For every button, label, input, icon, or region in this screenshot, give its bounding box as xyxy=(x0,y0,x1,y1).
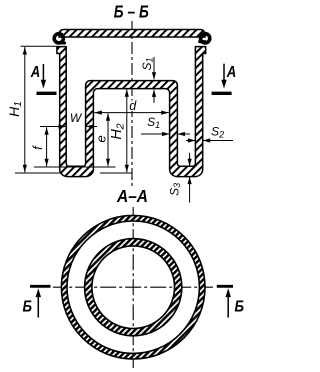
section marker A left xyxy=(30,64,57,93)
baseline upper xyxy=(34,166,116,168)
svg-text:S1: S1 xyxy=(147,115,160,130)
svg-text:Б – Б: Б – Б xyxy=(114,1,149,21)
cap top bar xyxy=(59,30,205,38)
bottom view centerline horizontal xyxy=(53,286,213,288)
section marker B right xyxy=(217,286,244,317)
svg-text:S2: S2 xyxy=(211,125,224,140)
svg-text:Б: Б xyxy=(235,299,245,316)
svg-text:d: d xyxy=(129,99,137,113)
cap right curl xyxy=(201,34,210,43)
dimension S1 right (inner wall) xyxy=(141,115,190,136)
dimension S2 (outer wall) xyxy=(186,125,233,143)
outer ring xyxy=(61,215,205,359)
dimension H1 xyxy=(6,47,27,172)
svg-text:W: W xyxy=(70,111,83,125)
dimension d xyxy=(94,99,168,115)
svg-text:А: А xyxy=(30,64,40,81)
svg-text:А–А: А–А xyxy=(116,186,148,206)
svg-text:e: e xyxy=(93,135,108,142)
dimension S1 top (deck thickness) xyxy=(140,57,156,103)
baseline lower left xyxy=(15,172,62,174)
body profile xyxy=(57,47,206,177)
centerline section view xyxy=(131,21,133,186)
dimension e xyxy=(93,113,110,166)
svg-text:H1: H1 xyxy=(6,101,24,117)
svg-text:S3: S3 xyxy=(168,183,183,196)
svg-text:Б: Б xyxy=(22,299,32,316)
svg-text:H2: H2 xyxy=(109,123,127,139)
svg-text:f: f xyxy=(31,145,45,150)
svg-text:А: А xyxy=(226,64,236,81)
dimension S3 (bottom thickness) xyxy=(168,153,192,203)
inner ring xyxy=(85,239,182,336)
dimension f xyxy=(31,127,49,166)
bottom view centerline vertical xyxy=(132,207,134,368)
extension line top left xyxy=(21,45,58,47)
section marker B left xyxy=(22,286,50,317)
dimension H2 xyxy=(109,89,129,172)
dimension W xyxy=(40,111,97,129)
section marker A right xyxy=(212,64,237,94)
cap left curl xyxy=(54,34,63,43)
svg-text:S1: S1 xyxy=(140,57,155,70)
baseline lower right xyxy=(100,172,132,174)
